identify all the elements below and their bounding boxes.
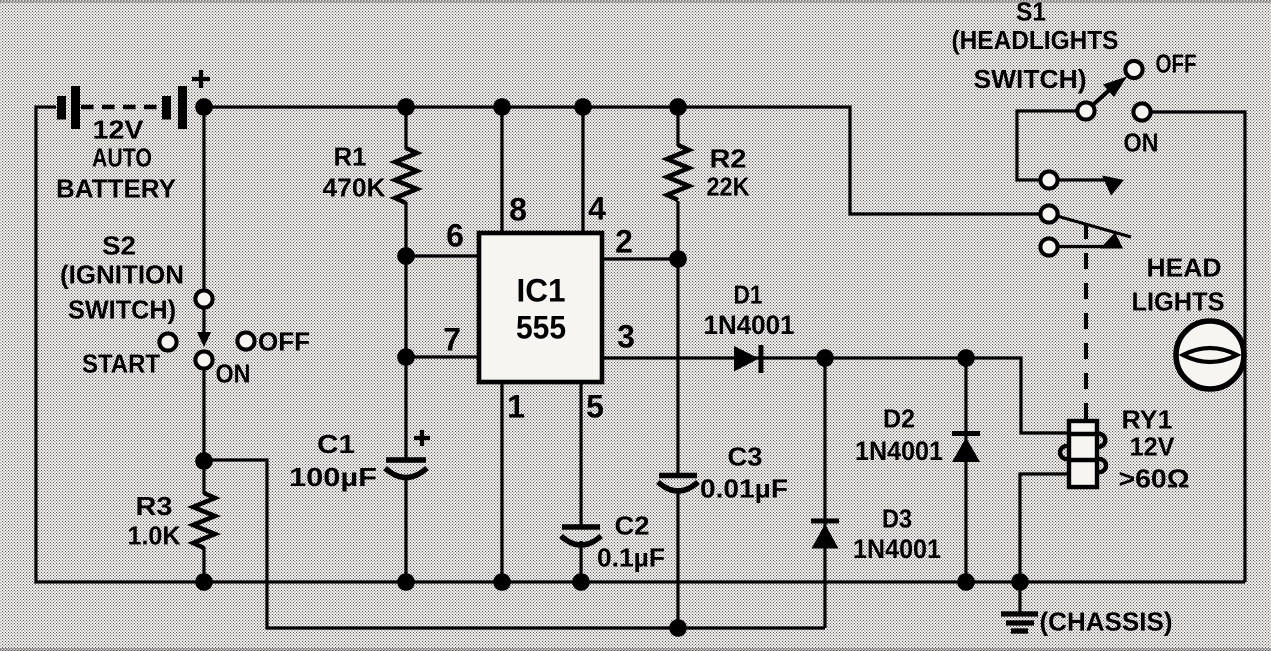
svg-text:ON: ON xyxy=(1124,128,1159,158)
svg-text:470K: 470K xyxy=(323,173,386,203)
svg-text:555: 555 xyxy=(516,310,566,346)
svg-text:SWITCH): SWITCH) xyxy=(974,64,1087,94)
svg-text:(IGNITION: (IGNITION xyxy=(60,260,184,290)
svg-text:1N4001: 1N4001 xyxy=(853,534,941,564)
svg-text:1N4001: 1N4001 xyxy=(704,310,795,340)
svg-text:4: 4 xyxy=(588,191,606,227)
svg-text:0.1µF: 0.1µF xyxy=(597,543,665,573)
svg-text:>60Ω: >60Ω xyxy=(1119,464,1190,494)
svg-text:C1: C1 xyxy=(317,429,355,459)
svg-text:D3: D3 xyxy=(882,504,912,534)
svg-text:C2: C2 xyxy=(615,511,650,541)
svg-text:2: 2 xyxy=(615,224,633,260)
svg-text:LIGHTS: LIGHTS xyxy=(1132,287,1225,317)
svg-text:1N4001: 1N4001 xyxy=(855,436,943,466)
svg-text:1: 1 xyxy=(507,389,525,425)
svg-text:12V: 12V xyxy=(93,115,145,145)
svg-text:6: 6 xyxy=(446,218,464,254)
svg-text:OFF: OFF xyxy=(1156,49,1197,79)
svg-text:8: 8 xyxy=(509,192,527,228)
svg-text:D1: D1 xyxy=(734,280,763,310)
svg-text:C3: C3 xyxy=(728,442,763,472)
svg-text:R3: R3 xyxy=(136,491,173,521)
svg-text:IC1: IC1 xyxy=(517,273,566,309)
svg-text:1.0K: 1.0K xyxy=(128,521,181,551)
svg-text:RY1: RY1 xyxy=(1122,405,1173,435)
svg-text:7: 7 xyxy=(443,322,461,358)
svg-text:S1: S1 xyxy=(1016,0,1046,27)
svg-text:(HEADLIGHTS: (HEADLIGHTS xyxy=(952,25,1119,55)
svg-text:5: 5 xyxy=(586,389,604,425)
svg-text:R1: R1 xyxy=(334,142,367,172)
svg-text:BATTERY: BATTERY xyxy=(56,174,176,204)
svg-text:3: 3 xyxy=(617,319,635,355)
svg-text:HEAD: HEAD xyxy=(1147,253,1222,283)
svg-text:D2: D2 xyxy=(883,404,915,434)
svg-text:12V: 12V xyxy=(1130,432,1176,462)
svg-text:R2: R2 xyxy=(710,144,747,174)
svg-text:100µF: 100µF xyxy=(289,462,377,492)
svg-text:S2: S2 xyxy=(102,231,136,261)
svg-text:SWITCH): SWITCH) xyxy=(68,295,176,325)
svg-text:OFF: OFF xyxy=(258,327,310,357)
svg-text:AUTO: AUTO xyxy=(92,143,152,173)
svg-text:0.01µF: 0.01µF xyxy=(700,474,788,504)
svg-text:START: START xyxy=(82,349,160,379)
svg-text:22K: 22K xyxy=(707,172,750,202)
svg-text:ON: ON xyxy=(216,359,251,389)
svg-text:(CHASSIS): (CHASSIS) xyxy=(1040,607,1173,637)
